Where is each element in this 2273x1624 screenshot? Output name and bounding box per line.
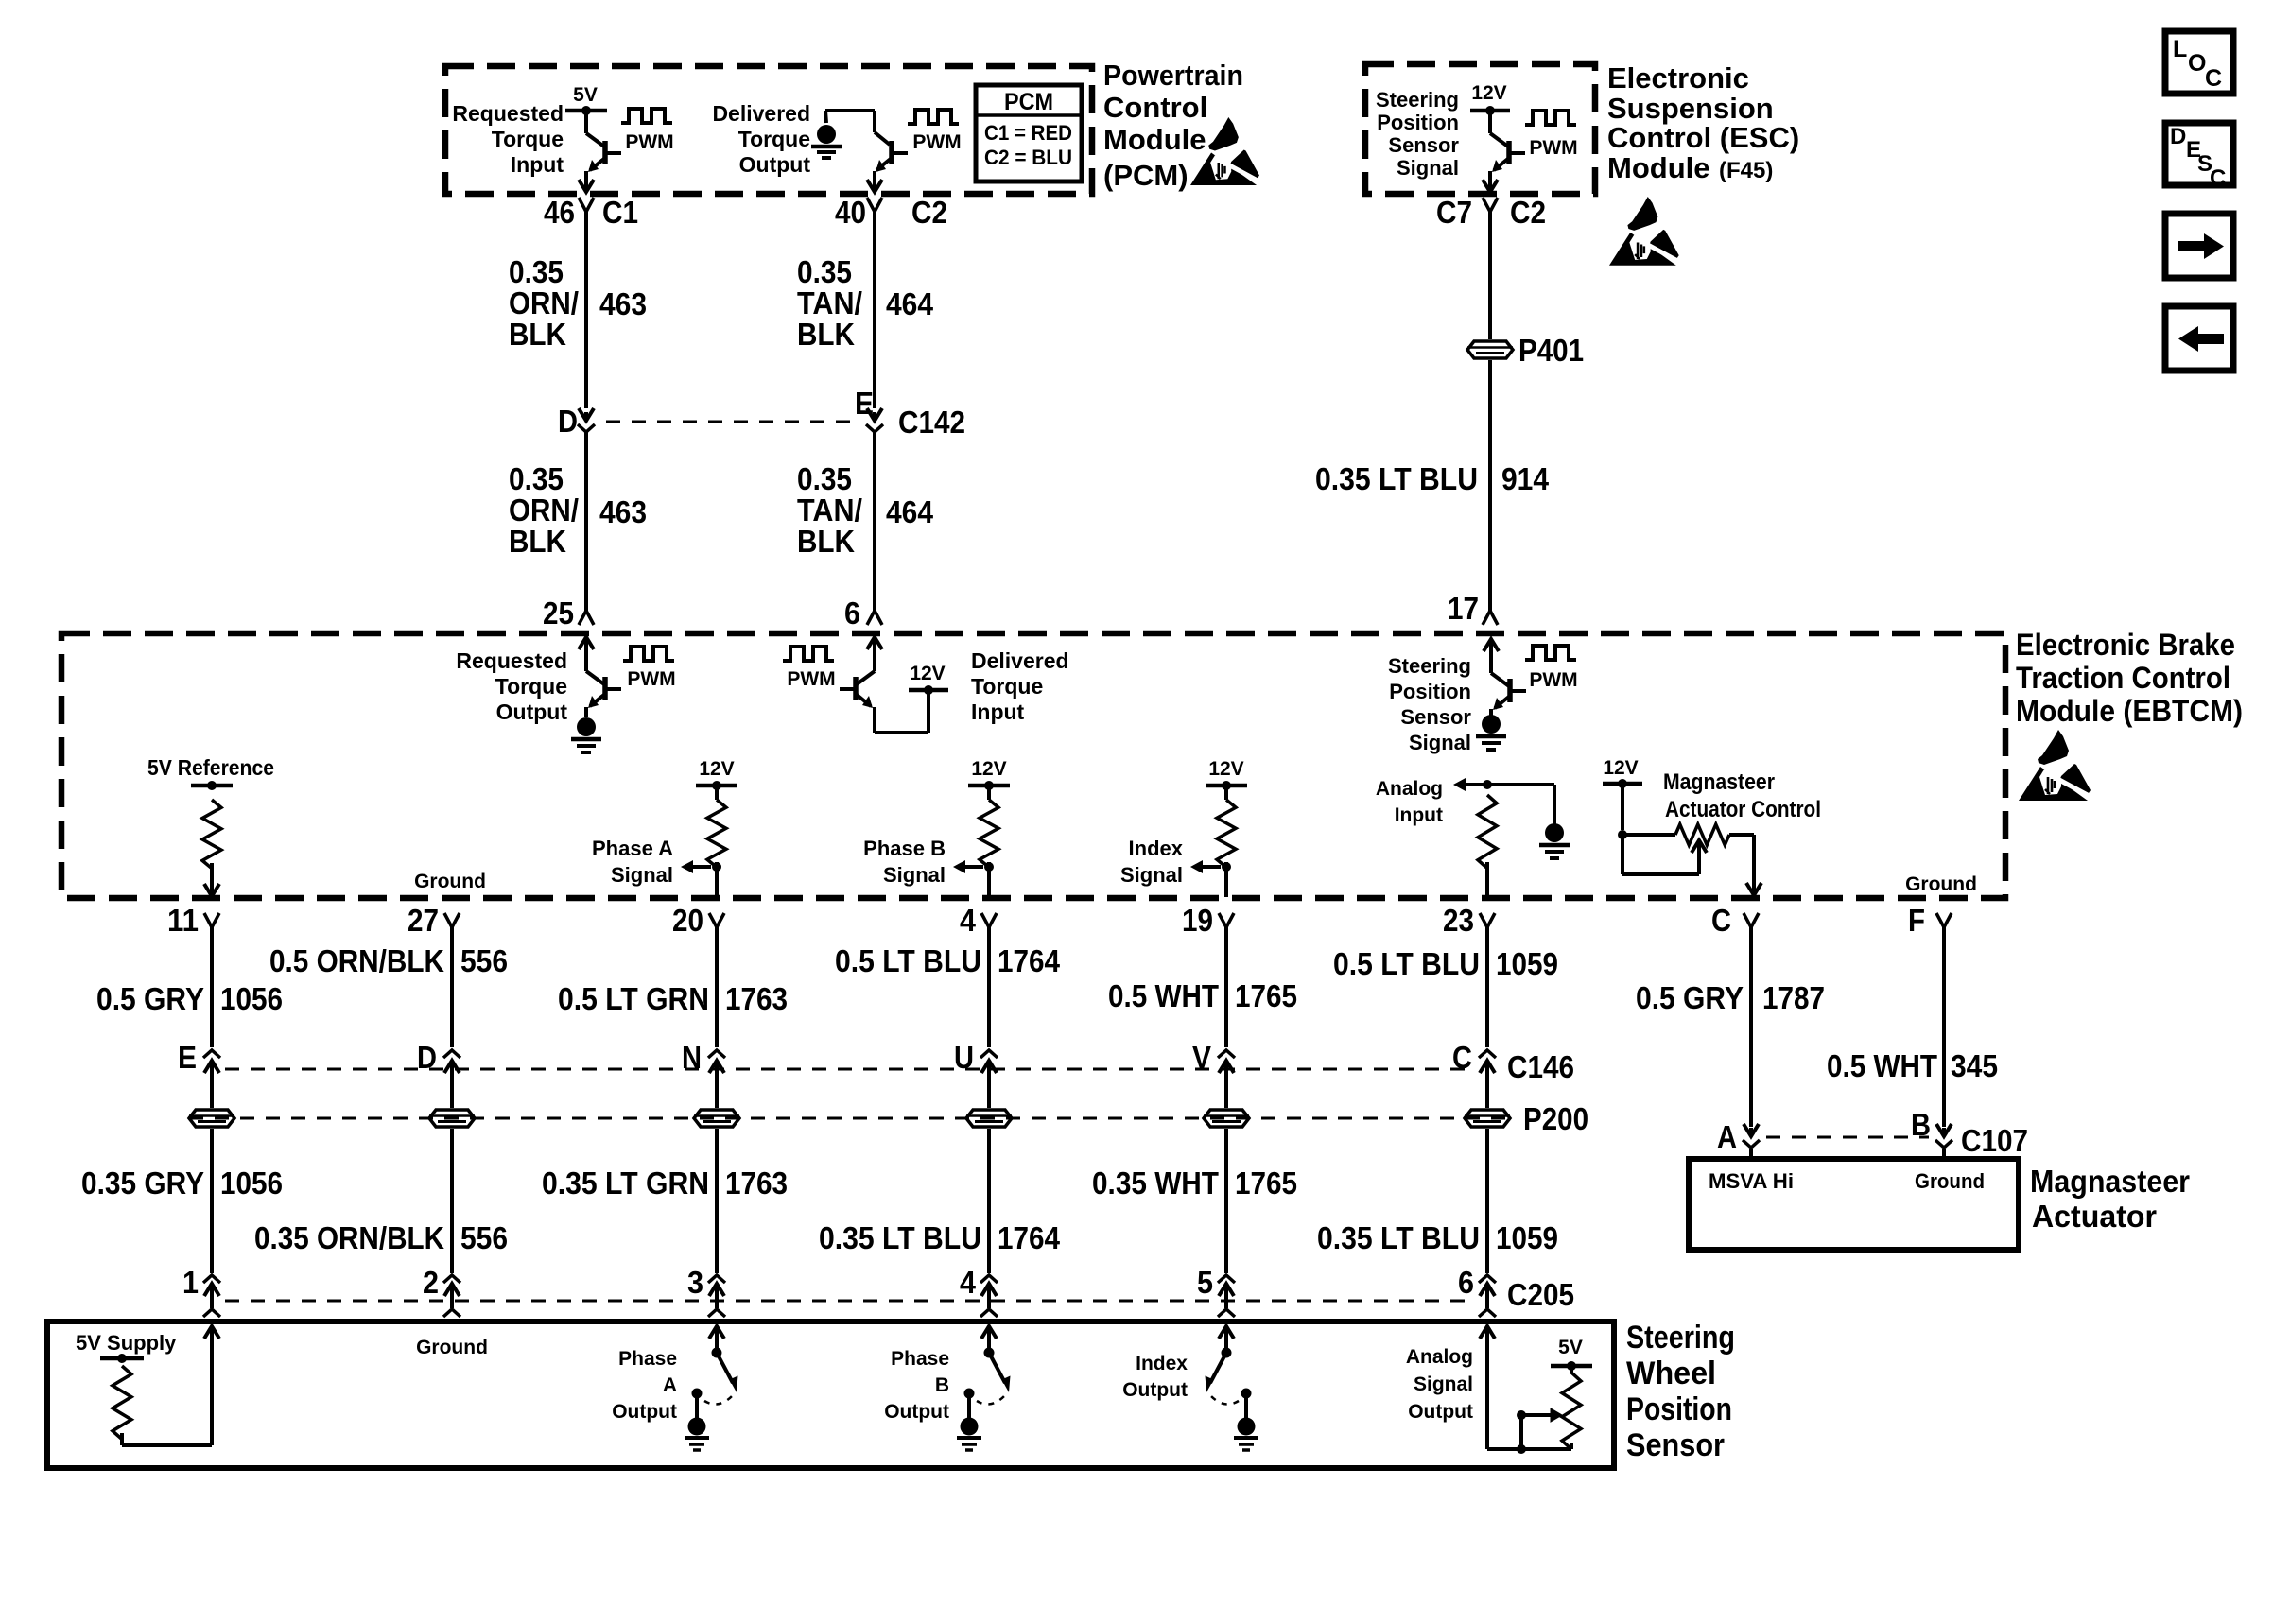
pin 25: [543, 596, 574, 631]
symbol ESD sensitive (PCM): [1190, 117, 1263, 185]
label 0.5 LT BLU 1764: [835, 943, 1061, 978]
svg-text:46: 46: [544, 195, 575, 230]
svg-text:12V: 12V: [971, 758, 1006, 780]
svg-text:P200: P200: [1523, 1101, 1588, 1136]
svg-text:Control (ESC): Control (ESC): [1607, 121, 1799, 154]
label Steering Position Sensor Signal: [1376, 88, 1459, 180]
svg-text:PWM: PWM: [1529, 669, 1577, 691]
svg-text:Torque: Torque: [492, 127, 564, 151]
symbol PWM wave 3: [1525, 111, 1578, 159]
svg-text:C1 = RED: C1 = RED: [984, 121, 1072, 145]
pin 11 (EBTCM): [167, 903, 219, 938]
svg-text:556: 556: [460, 943, 508, 978]
svg-text:5V Supply: 5V Supply: [76, 1331, 177, 1355]
connector C146 pin E: [178, 1040, 220, 1079]
svg-text:Module (EBTCM): Module (EBTCM): [2016, 694, 2243, 728]
connector C146 dashed line: [225, 1049, 1574, 1084]
node 5V (SWPS pot): [1551, 1337, 1592, 1371]
connector C205 pin 4: [960, 1265, 998, 1317]
label 0.35 LT BLU 1764: [819, 1220, 1061, 1255]
svg-text:Input: Input: [971, 700, 1025, 724]
svg-text:C2: C2: [1510, 195, 1546, 230]
wire 5V reference to pin 11: [204, 863, 219, 896]
connector P200 splice (C): [1465, 1079, 1510, 1127]
svg-text:Position: Position: [1377, 111, 1459, 134]
module EBTCM dashed box: [61, 633, 2005, 898]
svg-text:PCM: PCM: [1004, 89, 1053, 115]
svg-text:23: 23: [1443, 903, 1474, 938]
svg-text:Position: Position: [1626, 1391, 1732, 1427]
svg-text:D: D: [2170, 124, 2186, 149]
connector C146 pin C: [1452, 1040, 1496, 1079]
symbol PWM wave 4: [623, 647, 676, 690]
connector P200 splice (D): [429, 1079, 475, 1127]
svg-text:2: 2: [423, 1265, 439, 1300]
svg-text:5: 5: [1197, 1265, 1213, 1300]
transistor Q5 delivered torque input: [840, 637, 928, 733]
label Requested Torque Output: [456, 648, 567, 724]
connector P401: [1467, 333, 1584, 368]
svg-text:Position: Position: [1389, 680, 1471, 703]
label Ground (pin F): [1905, 873, 1977, 895]
connector C205 pin 5: [1197, 1265, 1235, 1317]
svg-text:C2: C2: [911, 195, 947, 230]
module Steering Wheel Position Sensor box: [47, 1322, 1614, 1468]
svg-text:P401: P401: [1518, 333, 1584, 368]
svg-text:Traction Control: Traction Control: [2016, 661, 2230, 695]
svg-text:12V: 12V: [699, 758, 734, 780]
wire 1764 upper segment: [987, 927, 991, 1047]
label Analog Signal Output: [1406, 1346, 1473, 1423]
label C142: [898, 405, 965, 440]
svg-text:Sensor: Sensor: [1400, 705, 1471, 729]
pin 46 C1: [544, 195, 638, 230]
svg-text:Ground: Ground: [1915, 1169, 1985, 1193]
svg-text:F: F: [1908, 903, 1925, 938]
svg-text:0.5 LT BLU: 0.5 LT BLU: [1333, 946, 1480, 981]
svg-text:BLK: BLK: [509, 317, 566, 352]
node 12V (delivered torque input): [909, 663, 948, 695]
label MSVA Hi: [1709, 1169, 1794, 1193]
svg-text:0.5 WHT: 0.5 WHT: [1827, 1048, 1937, 1083]
svg-text:Requested: Requested: [452, 101, 564, 126]
svg-text:20: 20: [672, 903, 703, 938]
svg-text:C2 = BLU: C2 = BLU: [984, 146, 1072, 169]
svg-text:Phase: Phase: [618, 1348, 677, 1370]
wire 1763 lower segment: [715, 1129, 719, 1273]
svg-text:5V Reference: 5V Reference: [147, 755, 274, 780]
wire analog signal output: [1480, 1326, 1571, 1449]
svg-text:556: 556: [460, 1220, 508, 1255]
svg-text:Sensor: Sensor: [1626, 1427, 1725, 1463]
svg-text:Output: Output: [612, 1401, 677, 1423]
wire 914 upper segment: [1488, 212, 1492, 339]
label 0.5 WHT 345: [1827, 1048, 1998, 1083]
connector P200 splice (U): [966, 1079, 1012, 1127]
svg-text:0.35 LT BLU: 0.35 LT BLU: [1315, 461, 1478, 496]
svg-text:Phase: Phase: [891, 1348, 949, 1370]
svg-text:MSVA Hi: MSVA Hi: [1709, 1169, 1794, 1193]
label 0.35 LT BLU 1059: [1317, 1220, 1558, 1255]
connector C205 pin 6: [1458, 1265, 1496, 1317]
svg-text:Phase B: Phase B: [863, 837, 946, 860]
svg-text:Signal: Signal: [611, 863, 673, 887]
switch index output: [1206, 1326, 1259, 1450]
label 0.5 GRY 1056: [96, 981, 283, 1016]
svg-text:Output: Output: [884, 1401, 949, 1423]
svg-text:Analog: Analog: [1376, 778, 1443, 800]
svg-text:6: 6: [844, 596, 860, 631]
icon box arrow left: [2165, 306, 2233, 371]
svg-text:Powertrain: Powertrain: [1103, 59, 1243, 92]
label 0.5 WHT 1765: [1108, 978, 1297, 1013]
label Electronic Suspension Control (ESC) Module (F45): [1607, 61, 1799, 184]
svg-text:17: 17: [1448, 591, 1479, 626]
wire 1765 upper segment: [1224, 927, 1228, 1047]
svg-text:Index: Index: [1136, 1353, 1188, 1374]
wire 556 lower segment: [450, 1129, 454, 1273]
svg-text:Signal: Signal: [1409, 731, 1471, 754]
label Requested Torque Input: [452, 101, 564, 177]
svg-text:E: E: [178, 1040, 197, 1075]
svg-text:(PCM): (PCM): [1103, 159, 1189, 192]
svg-text:1056: 1056: [220, 981, 283, 1016]
svg-text:BLK: BLK: [509, 524, 566, 559]
label Index Output: [1122, 1353, 1188, 1401]
label 0.35 ORN/BLK 463 (upper): [509, 254, 647, 352]
svg-text:Analog: Analog: [1406, 1346, 1473, 1368]
connector C107 pin A: [1717, 1119, 1760, 1159]
wire 556 upper segment: [450, 927, 454, 1047]
transistor Q2 delivered torque output: [825, 111, 908, 192]
svg-text:5V: 5V: [1558, 1337, 1583, 1358]
svg-text:Suspension: Suspension: [1607, 92, 1774, 125]
svg-text:464: 464: [886, 286, 934, 321]
potentiometer steering position: [1517, 1366, 1581, 1454]
svg-text:Delivered: Delivered: [712, 101, 810, 126]
module ESC dashed box: [1365, 64, 1595, 194]
svg-text:C146: C146: [1507, 1049, 1574, 1084]
ground (analog input): [1539, 823, 1570, 858]
svg-text:0.5 GRY: 0.5 GRY: [96, 981, 204, 1016]
svg-text:0.5 ORN/BLK: 0.5 ORN/BLK: [269, 943, 444, 978]
svg-text:Module: Module: [1103, 123, 1206, 156]
icon box arrow right: [2165, 214, 2233, 278]
svg-text:Steering: Steering: [1376, 88, 1459, 112]
svg-text:C: C: [2210, 165, 2226, 191]
symbol ESD sensitive (ESC): [1609, 197, 1683, 266]
svg-text:Module: Module: [1607, 151, 1710, 184]
connector P200 splice (V): [1204, 1079, 1249, 1127]
node Index Signal: [1120, 758, 1247, 897]
svg-text:4: 4: [960, 903, 977, 938]
svg-text:Torque: Torque: [738, 127, 810, 151]
label 0.35 TAN/BLK 464 (lower): [797, 461, 934, 559]
pin 27 (EBTCM): [408, 903, 460, 938]
svg-text:1056: 1056: [220, 1166, 283, 1201]
label 0.35 TAN/BLK 464 (upper): [797, 254, 934, 352]
wire 914 lower segment: [1483, 360, 1498, 625]
wire 1056 upper segment: [210, 927, 214, 1047]
connector C205 pin 1: [182, 1265, 220, 1317]
pin 4 (EBTCM): [960, 903, 997, 938]
svg-text:Delivered: Delivered: [971, 648, 1069, 673]
svg-text:PWM: PWM: [1529, 137, 1577, 159]
label 0.35 WHT 1765: [1092, 1166, 1297, 1201]
connector P200 splice (E): [189, 1079, 234, 1127]
node Phase A Signal: [592, 758, 737, 897]
label 0.5 GRY 1787: [1636, 980, 1825, 1015]
svg-text:B: B: [935, 1374, 949, 1396]
svg-text:Electronic: Electronic: [1607, 61, 1749, 95]
svg-text:1764: 1764: [998, 1220, 1061, 1255]
resistor R2 analog input: [1478, 795, 1497, 897]
symbol ESD sensitive (EBTCM): [2019, 730, 2094, 801]
svg-text:0.35 LT BLU: 0.35 LT BLU: [1317, 1220, 1480, 1255]
svg-text:1765: 1765: [1235, 1166, 1297, 1201]
svg-text:Signal: Signal: [1120, 863, 1183, 887]
svg-text:Ground: Ground: [1905, 873, 1977, 895]
label 0.5 LT GRN 1763: [558, 981, 788, 1016]
svg-text:Control: Control: [1103, 91, 1207, 124]
svg-text:914: 914: [1501, 461, 1550, 496]
svg-text:C: C: [2205, 65, 2222, 92]
connector C205 dashed line: [225, 1277, 1574, 1312]
label Phase A Output: [612, 1348, 677, 1423]
svg-text:0.5 LT GRN: 0.5 LT GRN: [558, 981, 709, 1016]
svg-text:0.5 GRY: 0.5 GRY: [1636, 980, 1744, 1015]
transistor Q3 steering position sensor: [1483, 111, 1525, 192]
svg-text:1787: 1787: [1762, 980, 1825, 1015]
svg-text:0.35 WHT: 0.35 WHT: [1092, 1166, 1219, 1201]
wire 1059 lower segment: [1485, 1129, 1489, 1273]
connector P200 dashed line: [189, 1101, 1588, 1136]
svg-text:1765: 1765: [1235, 978, 1297, 1013]
svg-text:Signal: Signal: [883, 863, 946, 887]
svg-text:Ground: Ground: [416, 1337, 488, 1358]
svg-text:463: 463: [599, 286, 647, 321]
connector C146 pin D: [417, 1040, 460, 1079]
svg-text:Wheel: Wheel: [1626, 1356, 1716, 1391]
node 5V Reference: [147, 755, 274, 790]
label Powertrain Control Module (PCM): [1103, 59, 1243, 192]
svg-text:0.5 LT BLU: 0.5 LT BLU: [835, 943, 981, 978]
wire 1763 upper segment: [715, 927, 719, 1047]
svg-text:Signal: Signal: [1397, 156, 1459, 180]
wire 1059 upper segment: [1485, 927, 1489, 1047]
svg-text:Input: Input: [511, 152, 564, 177]
label Ground (SWPS): [416, 1337, 488, 1358]
svg-text:Phase A: Phase A: [592, 837, 673, 860]
pin 40 C2: [835, 195, 947, 230]
icon box LOC: [2165, 31, 2233, 94]
svg-text:TAN/: TAN/: [797, 492, 862, 527]
svg-text:4: 4: [960, 1265, 977, 1300]
pin C (EBTCM): [1711, 903, 1759, 938]
svg-text:Output: Output: [1408, 1401, 1473, 1423]
label Ground (pin 27): [414, 871, 486, 892]
svg-text:12V: 12V: [1208, 758, 1243, 780]
svg-text:1: 1: [182, 1265, 199, 1300]
wire 5V supply return: [122, 1326, 219, 1445]
ground (PCM delivered torque): [811, 111, 842, 158]
label Phase B Output: [884, 1348, 949, 1423]
svg-text:40: 40: [835, 195, 866, 230]
svg-text:12V: 12V: [1471, 82, 1506, 104]
svg-text:PWM: PWM: [787, 668, 835, 690]
transistor Q1 requested torque input: [579, 111, 621, 192]
svg-text:1763: 1763: [725, 1166, 788, 1201]
switch phase A output: [685, 1326, 738, 1450]
resistor R3 5V supply: [113, 1366, 131, 1440]
transistor Q4 requested torque output: [579, 637, 621, 717]
svg-text:C: C: [1711, 903, 1731, 938]
svg-text:Actuator Control: Actuator Control: [1665, 797, 1821, 822]
svg-text:1059: 1059: [1496, 946, 1558, 981]
connector C205 pin 3: [687, 1265, 725, 1317]
transistor Q6 steering position sensor signal: [1484, 639, 1526, 716]
label Ground (magnasteer): [1915, 1169, 1985, 1193]
svg-text:TAN/: TAN/: [797, 285, 862, 320]
label 0.5 LT BLU 1059: [1333, 946, 1558, 981]
label 5V Supply: [76, 1331, 177, 1355]
label 0.35 ORN/BLK 463 (lower): [509, 461, 647, 559]
svg-text:Magnasteer: Magnasteer: [1663, 769, 1775, 795]
svg-text:ORN/: ORN/: [509, 492, 579, 527]
svg-text:5V: 5V: [573, 84, 598, 106]
svg-text:25: 25: [543, 596, 574, 631]
label 0.35 LT BLU 914: [1315, 461, 1550, 496]
svg-text:Torque: Torque: [495, 674, 567, 699]
connector P200 splice (N): [694, 1079, 739, 1127]
node 5V (PCM): [565, 84, 607, 115]
label 0.5 ORN/BLK 556: [269, 943, 508, 978]
svg-text:Output: Output: [1122, 1379, 1188, 1401]
connector C146 pin N: [682, 1040, 725, 1079]
svg-text:0.35 LT GRN: 0.35 LT GRN: [542, 1166, 709, 1201]
node 5V supply: [100, 1354, 144, 1363]
svg-text:19: 19: [1182, 903, 1213, 938]
node Analog Input: [1376, 778, 1554, 826]
svg-text:Steering: Steering: [1626, 1320, 1735, 1356]
wire 463 upper segment: [584, 212, 588, 408]
svg-text:(F45): (F45): [1719, 158, 1773, 183]
module Magnasteer Actuator box: [1689, 1159, 2019, 1250]
svg-text:A: A: [1717, 1119, 1737, 1154]
resistor R1 5V reference: [202, 800, 221, 869]
svg-text:PWM: PWM: [627, 668, 675, 690]
svg-text:1764: 1764: [998, 943, 1061, 978]
svg-text:Signal: Signal: [1414, 1373, 1473, 1395]
symbol PWM wave 5: [783, 647, 836, 690]
svg-text:0.5 WHT: 0.5 WHT: [1108, 978, 1219, 1013]
svg-text:Index: Index: [1129, 837, 1184, 860]
symbol PWM wave 1: [621, 109, 674, 153]
connector C107 dashed line: [1766, 1123, 2028, 1158]
label Magnasteer Actuator: [2030, 1164, 2190, 1234]
svg-text:C142: C142: [898, 405, 965, 440]
svg-text:Torque: Torque: [971, 674, 1043, 699]
switch phase B output: [957, 1326, 1011, 1450]
pin 20 (EBTCM): [672, 903, 724, 938]
pin 23 (EBTCM): [1443, 903, 1495, 938]
connector C146 pin U: [954, 1040, 998, 1079]
svg-text:D: D: [558, 404, 578, 439]
wire 1056 lower segment: [210, 1129, 214, 1273]
svg-text:O: O: [2188, 50, 2206, 77]
svg-text:Input: Input: [1395, 804, 1443, 826]
svg-text:Output: Output: [496, 700, 568, 724]
svg-text:3: 3: [687, 1265, 703, 1300]
connector C142 dashed line: [606, 421, 854, 423]
icon box DESC: [2165, 123, 2233, 191]
svg-text:Sensor: Sensor: [1388, 133, 1459, 157]
symbol PWM wave 6: [1525, 646, 1578, 691]
node Phase B Signal: [863, 758, 1010, 897]
svg-text:C1: C1: [602, 195, 638, 230]
svg-text:12V: 12V: [910, 663, 945, 684]
label Delivered Torque Input: [971, 648, 1069, 724]
pin 17: [1448, 591, 1479, 626]
wire 463 lower segment: [579, 432, 594, 625]
svg-text:0.35: 0.35: [509, 461, 564, 496]
connector C146 pin V: [1192, 1040, 1235, 1079]
pin F (EBTCM): [1908, 903, 1952, 938]
pin 19 (EBTCM): [1182, 903, 1234, 938]
label 0.35 LT GRN 1763: [542, 1166, 788, 1201]
svg-text:PWM: PWM: [625, 131, 673, 153]
svg-text:Magnasteer: Magnasteer: [2030, 1164, 2190, 1199]
ground (requested torque output): [571, 717, 601, 752]
svg-text:0.35: 0.35: [797, 461, 852, 496]
wire 1765 lower segment: [1224, 1129, 1228, 1273]
svg-text:C107: C107: [1961, 1123, 2028, 1158]
svg-text:PWM: PWM: [912, 131, 961, 153]
wire 1787 segment: [1749, 927, 1753, 1127]
svg-text:463: 463: [599, 494, 647, 529]
svg-text:L: L: [2173, 36, 2187, 62]
wire 464 lower segment: [867, 432, 882, 625]
label Steering Wheel Position Sensor: [1626, 1320, 1735, 1463]
svg-text:BLK: BLK: [797, 524, 855, 559]
connector C142 pin D: [558, 404, 595, 439]
svg-text:345: 345: [1951, 1048, 1998, 1083]
svg-text:ORN/: ORN/: [509, 285, 579, 320]
svg-text:11: 11: [167, 903, 199, 938]
node 12V (magnasteer control): [1603, 757, 1642, 788]
svg-text:12V: 12V: [1603, 757, 1638, 779]
svg-text:27: 27: [408, 903, 439, 938]
label 0.35 ORN/BLK 556: [254, 1220, 508, 1255]
svg-text:0.35: 0.35: [509, 254, 564, 289]
svg-text:C205: C205: [1507, 1277, 1574, 1312]
svg-text:0.35 ORN/BLK: 0.35 ORN/BLK: [254, 1220, 444, 1255]
symbol PWM wave 2: [908, 110, 962, 153]
module PCM dashed box: [445, 66, 1092, 194]
label Magnasteer Actuator Control: [1663, 769, 1821, 822]
pin C7 C2: [1436, 195, 1546, 230]
label Steering Position Sensor Signal (EBTCM): [1388, 654, 1471, 754]
label Delivered Torque Output: [712, 101, 810, 177]
svg-text:Output: Output: [739, 152, 811, 177]
svg-text:0.35 LT BLU: 0.35 LT BLU: [819, 1220, 981, 1255]
svg-text:Electronic Brake: Electronic Brake: [2016, 628, 2235, 662]
label 0.35 GRY 1056: [81, 1166, 283, 1201]
label Electronic Brake Traction Control Module (EBTCM): [2016, 628, 2243, 728]
svg-text:Ground: Ground: [414, 871, 486, 892]
svg-text:BLK: BLK: [797, 317, 855, 352]
legend box PCM connectors: [976, 85, 1082, 181]
